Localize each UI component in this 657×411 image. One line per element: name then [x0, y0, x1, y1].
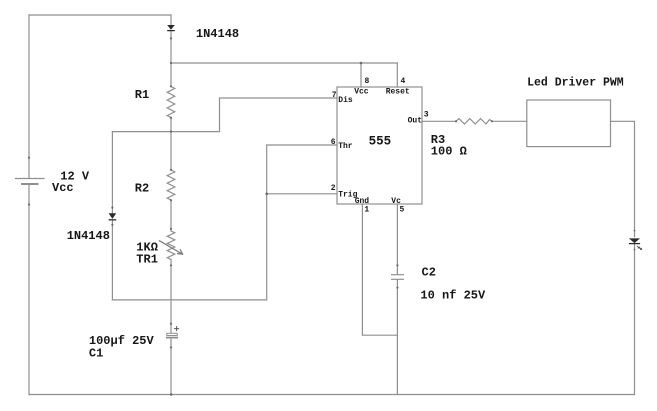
svg-text:TR1: TR1 — [136, 252, 158, 266]
svg-text:Dis: Dis — [338, 96, 353, 105]
svg-text:2: 2 — [331, 184, 336, 193]
svg-text:R1: R1 — [135, 88, 149, 102]
svg-text:Thr: Thr — [338, 142, 353, 151]
svg-text:5: 5 — [400, 206, 405, 215]
svg-text:1N4148: 1N4148 — [196, 27, 239, 41]
svg-text:1: 1 — [364, 206, 369, 215]
svg-text:Vcc: Vcc — [52, 181, 74, 195]
svg-text:7: 7 — [332, 91, 337, 100]
svg-text:Vcc: Vcc — [354, 88, 369, 97]
svg-text:Reset: Reset — [386, 88, 410, 97]
svg-text:8: 8 — [365, 77, 370, 86]
svg-text:4: 4 — [401, 77, 406, 86]
svg-text:Out: Out — [408, 116, 423, 125]
svg-text:100 Ω: 100 Ω — [431, 145, 467, 159]
svg-text:C2: C2 — [422, 265, 436, 279]
svg-text:C1: C1 — [89, 347, 103, 361]
svg-text:6: 6 — [331, 138, 336, 147]
svg-text:3: 3 — [424, 111, 429, 120]
svg-text:Led Driver PWM: Led Driver PWM — [527, 77, 624, 90]
svg-text:R2: R2 — [135, 181, 149, 195]
svg-text:555: 555 — [369, 135, 392, 149]
svg-text:1N4148: 1N4148 — [67, 229, 110, 243]
svg-text:10 nf 25V: 10 nf 25V — [420, 288, 486, 302]
